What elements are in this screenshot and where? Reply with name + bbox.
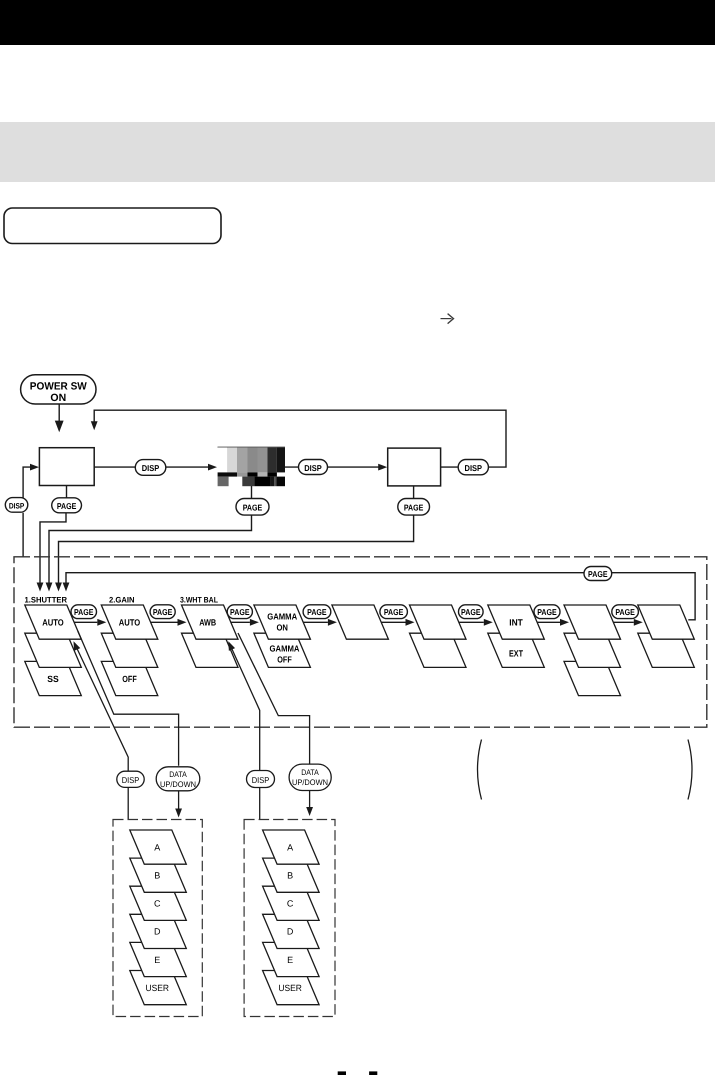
svg-text:DISP: DISP [142, 463, 160, 473]
POWER SW ON terminal [21, 375, 96, 404]
svg-text:DATA: DATA [301, 768, 319, 777]
stack 7 INT EXT pages [488, 605, 545, 667]
PAGE capsule 7-8 and arrow [537, 621, 560, 623]
svg-text:DISP: DISP [465, 463, 483, 473]
svg-text:C: C [287, 899, 294, 909]
svg-text:DISP: DISP [9, 501, 25, 510]
svg-text:PAGE: PAGE [404, 503, 424, 513]
svg-text:POWER SW: POWER SW [30, 380, 87, 392]
screen box 2 [388, 448, 441, 486]
svg-text:USER: USER [278, 983, 302, 993]
wire stack1 to DATA UP/DOWN below [78, 631, 179, 766]
wire left DISP up into screen1 [23, 467, 30, 498]
footer page number marks [338, 1071, 346, 1075]
wire stack3 to DATA UP/DOWN below [238, 633, 310, 764]
svg-text:PAGE: PAGE [57, 501, 77, 511]
svg-text:DATA: DATA [169, 770, 187, 779]
file box B pages A-USER [263, 830, 320, 1005]
svg-text:B: B [287, 871, 293, 881]
stack 6 pages [410, 605, 467, 667]
svg-text:OFF: OFF [122, 674, 137, 684]
wire stack1 to DISP below, with up arrow [74, 643, 128, 771]
file box A pages A-USER [130, 830, 187, 1005]
svg-text:UP/DOWN: UP/DOWN [160, 780, 196, 789]
wire DISP to file box A [127, 788, 129, 820]
stack 2 GAIN pages [101, 605, 158, 696]
wire PAGE2 to menu entry arrow 2 [49, 515, 252, 582]
svg-text:PAGE: PAGE [461, 607, 481, 617]
menu mode dashed border [14, 557, 707, 727]
wire screen1 to bars screen [94, 466, 208, 468]
wire PAGE3 to menu entry arrow 3 [59, 515, 414, 582]
stack 3 WHT BAL pages [182, 605, 239, 667]
svg-text:2.GAIN: 2.GAIN [109, 596, 135, 605]
DISP capsule left [5, 498, 28, 513]
DATA UP/DOWN capsule (right) [289, 764, 331, 790]
svg-text:UP/DOWN: UP/DOWN [292, 778, 328, 787]
wire PAGE1 to menu entry arrow 1 [40, 513, 66, 583]
color-bar test screen bitmap [218, 447, 286, 487]
PAGE loop wire from last page back to first [66, 573, 695, 620]
top black title bar [0, 0, 715, 45]
DISP capsule below menu (right) [247, 771, 275, 788]
svg-text:EXT: EXT [509, 648, 523, 658]
DISP capsule mid [135, 460, 166, 476]
PAGE capsule 3-4 and arrow [231, 621, 250, 623]
svg-text:A: A [154, 842, 160, 852]
svg-text:ON: ON [50, 392, 66, 404]
right-arrow glyph in body text [441, 314, 454, 324]
PAGE capsule 6-7 and arrow [459, 621, 484, 623]
svg-text:DISP: DISP [122, 775, 140, 785]
svg-text:PAGE: PAGE [243, 503, 263, 513]
DISP capsule right of bars [299, 460, 328, 475]
arrow DATA to file box B [309, 791, 311, 808]
stack 4 GAMMA pages [254, 605, 311, 667]
svg-text:DISP: DISP [252, 775, 270, 785]
svg-text:ON: ON [276, 623, 288, 633]
svg-text:C: C [154, 899, 161, 909]
svg-text:INT: INT [509, 617, 523, 627]
stack 1 SHUTTER pages [25, 605, 82, 696]
svg-text:PAGE: PAGE [384, 607, 404, 617]
arrowhead into screen1 top [91, 421, 98, 430]
DISP capsule below menu (left) [117, 771, 144, 787]
PAGE capsule 1-2 and arrow [74, 621, 97, 623]
PAGE capsule 8-9 and arrow [613, 621, 634, 623]
svg-text:A: A [287, 842, 293, 852]
svg-text:AUTO: AUTO [42, 617, 64, 627]
svg-text:PAGE: PAGE [74, 607, 94, 617]
big left parenthesis [478, 740, 482, 800]
stack 9 pages [638, 605, 695, 667]
svg-text:PAGE: PAGE [153, 607, 173, 617]
wire DISP to file box B [259, 788, 261, 820]
svg-text:D: D [287, 927, 294, 937]
DATA UP/DOWN capsule (left) [156, 767, 200, 791]
wire left DISP down to menu border [22, 513, 24, 557]
svg-text:USER: USER [146, 983, 170, 993]
PAGE capsule on loop wire [584, 567, 612, 581]
svg-text:1.SHUTTER: 1.SHUTTER [25, 596, 68, 605]
PAGE capsule under screen2 [398, 486, 430, 515]
svg-text:D: D [154, 927, 161, 937]
stack 8 pages [564, 605, 621, 696]
arrow POWER SW to screen1 [56, 404, 63, 430]
svg-text:E: E [287, 955, 293, 965]
DISP capsule far right [458, 460, 488, 475]
file box A dashed border [113, 820, 202, 1017]
svg-text:AUTO: AUTO [119, 617, 141, 627]
wire stack3 to DISP below, with up arrow [229, 643, 260, 771]
feedback wire from right DISP back to screen1 [94, 410, 506, 467]
svg-text:B: B [154, 871, 160, 881]
screen box 1 [39, 448, 94, 486]
PAGE capsule 2-3 and arrow [151, 621, 178, 623]
svg-text:DISP: DISP [304, 463, 322, 473]
svg-text:SS: SS [47, 674, 59, 684]
svg-text:PAGE: PAGE [588, 569, 608, 579]
PAGE capsule under screen1 [52, 486, 82, 513]
PAGE capsule 4-5 and arrow [303, 621, 328, 623]
file box B dashed border [244, 820, 335, 1017]
PAGE capsule under bars screen [236, 486, 269, 515]
svg-text:E: E [154, 955, 160, 965]
svg-text:PAGE: PAGE [537, 607, 557, 617]
svg-text:AWB: AWB [199, 617, 216, 627]
svg-text:3.WHT BAL: 3.WHT BAL [180, 596, 218, 605]
svg-text:GAMMA: GAMMA [267, 612, 298, 622]
gray section bar [0, 122, 715, 182]
wire bars screen to screen2 [285, 466, 379, 468]
PAGE capsule 5-6 and arrow [381, 621, 405, 623]
svg-text:GAMMA: GAMMA [270, 644, 301, 654]
svg-text:OFF: OFF [277, 655, 292, 665]
svg-text:PAGE: PAGE [615, 607, 635, 617]
svg-text:PAGE: PAGE [230, 607, 250, 617]
arrow DATA to file box A [178, 791, 180, 809]
rounded heading box [4, 208, 221, 244]
big right parenthesis [688, 740, 692, 800]
svg-text:PAGE: PAGE [307, 607, 327, 617]
stack 5 page [332, 605, 389, 639]
